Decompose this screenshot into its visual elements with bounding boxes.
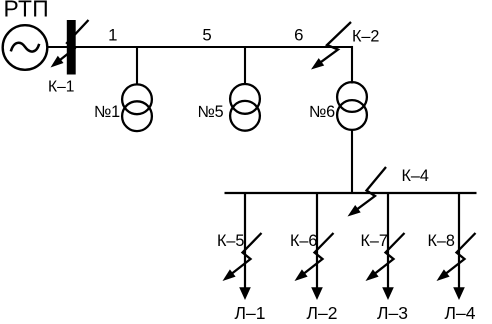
svg-text:Л–4: Л–4 xyxy=(445,303,476,323)
wire: outgoing feeder Л-2 xyxy=(316,193,318,288)
svg-text:К–2: К–2 xyxy=(352,27,379,45)
short-circuit arrow К-1 xyxy=(51,20,89,68)
0.4kV distribution busbar xyxy=(225,192,477,194)
wire: tap to transformer №5 xyxy=(244,47,246,85)
transformer №6 xyxy=(337,82,367,130)
svg-text:К–5: К–5 xyxy=(217,232,244,250)
wire: main 10kV feeder line xyxy=(76,46,353,48)
short-circuit arrow К-2 xyxy=(311,22,351,70)
wire: generator to section bar xyxy=(47,46,67,48)
wire: corner drop to transformer №6 xyxy=(351,46,353,84)
svg-text:1: 1 xyxy=(108,25,117,44)
svg-text:6: 6 xyxy=(294,25,303,44)
short-circuit arrow К-8 xyxy=(437,233,476,281)
wire: outgoing feeder Л-3 xyxy=(387,193,389,288)
svg-text:К–1: К–1 xyxy=(48,78,74,95)
svg-text:К–4: К–4 xyxy=(402,167,429,185)
feeder Л-4 output arrow xyxy=(453,287,465,300)
svg-text:№5: №5 xyxy=(198,103,224,121)
svg-text:К–8: К–8 xyxy=(428,232,455,250)
short-circuit arrow К-6 xyxy=(295,233,334,281)
svg-text:РТП: РТП xyxy=(4,0,49,21)
feeder Л-2 output arrow xyxy=(311,287,323,300)
generator РТП (AC source G1) xyxy=(3,25,48,70)
svg-text:№6: №6 xyxy=(309,103,335,121)
wire: transformer №6 to 0.4kV busbar xyxy=(351,130,353,194)
svg-text:5: 5 xyxy=(202,25,211,44)
svg-text:Л–3: Л–3 xyxy=(377,303,408,323)
svg-text:К–7: К–7 xyxy=(361,232,388,250)
svg-text:№1: №1 xyxy=(94,103,120,121)
transformer №5 xyxy=(230,84,260,131)
section switch bar (РТП busbar) xyxy=(67,20,76,75)
short-circuit arrow К-5 xyxy=(223,233,262,281)
transformer №1 xyxy=(122,84,152,131)
svg-text:К–6: К–6 xyxy=(290,232,317,250)
short-circuit arrow К-4 xyxy=(348,167,387,217)
feeder Л-1 output arrow xyxy=(239,287,251,300)
wire: outgoing feeder Л-4 xyxy=(458,193,460,288)
feeder Л-3 output arrow xyxy=(382,287,394,300)
wire: outgoing feeder Л-1 xyxy=(244,193,246,288)
svg-text:Л–2: Л–2 xyxy=(307,303,338,323)
svg-text:Л–1: Л–1 xyxy=(235,303,266,323)
wire: tap to transformer №1 xyxy=(136,47,138,86)
short-circuit arrow К-7 xyxy=(366,233,405,281)
